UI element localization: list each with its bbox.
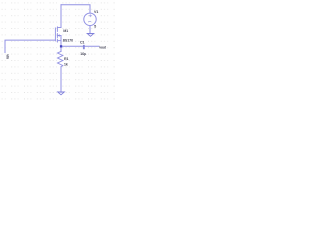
ground under resistor (58, 92, 65, 95)
wire source vertical into resistor (60, 36, 62, 52)
arrow of M1 bulk (57, 34, 59, 37)
voltage source V1 (84, 13, 96, 25)
resistor R1 (58, 51, 63, 66)
svg-text:vout: vout (99, 46, 106, 50)
wire gate to vin (5, 40, 55, 52)
svg-text:vin: vin (5, 54, 9, 59)
svg-text:10µ: 10µ (80, 52, 86, 56)
svg-text:BS170: BS170 (63, 39, 73, 43)
wire top rail from drain to V1 plus (61, 5, 90, 13)
svg-text:M1: M1 (63, 29, 68, 33)
capacitor C1 (82, 45, 85, 49)
wire resistor bottom to ground (60, 67, 62, 93)
svg-text:R1: R1 (64, 57, 69, 61)
wire drain vertical (60, 5, 62, 28)
wire V1 minus to ground (89, 26, 91, 34)
ground under V1 (87, 34, 94, 37)
svg-text:V1: V1 (94, 10, 98, 14)
svg-text:5: 5 (94, 24, 96, 28)
background (0, 0, 115, 100)
svg-text:1k: 1k (64, 62, 68, 66)
wire source node to vout (61, 45, 99, 47)
node junction dot (60, 45, 62, 47)
transistor M1 (NMOS) (55, 27, 61, 42)
svg-text:C1: C1 (80, 40, 85, 44)
